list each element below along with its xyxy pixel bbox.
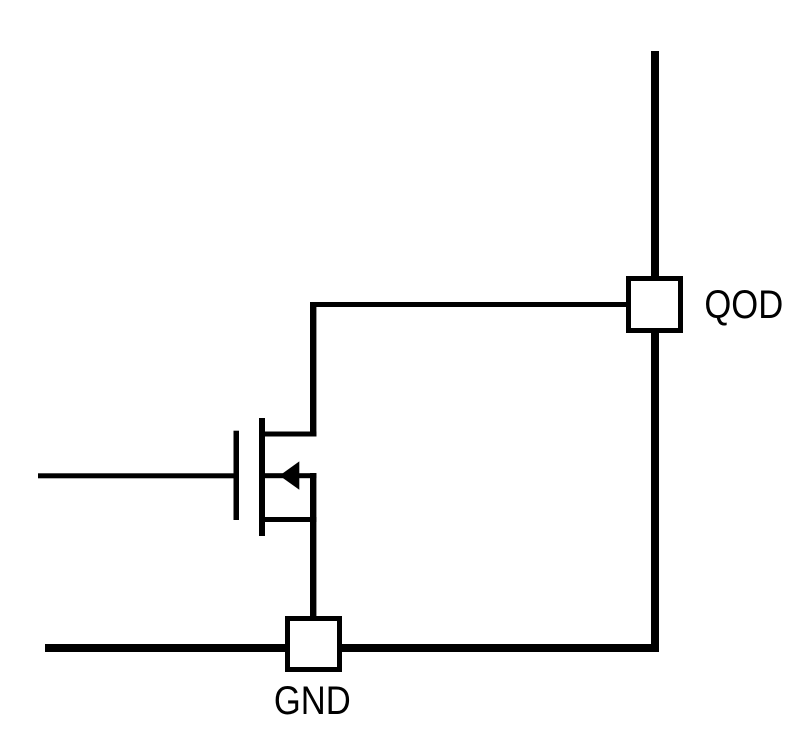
wire: drain net vertical from top edge down to QOD port: [651, 51, 659, 280]
wire: gate lead from left edge: [38, 473, 234, 478]
transistor M1 gate bar: [234, 431, 240, 520]
transistor M1 body arrow: [280, 461, 300, 489]
svg-text:GND: GND: [274, 677, 351, 722]
wire: transistor body lead: [261, 473, 316, 478]
wire: transistor drain lead: [261, 432, 316, 437]
wire: transistor source lead: [261, 517, 316, 522]
port QOD box: [629, 279, 681, 331]
wire: bottom ground rail: [45, 644, 659, 652]
wire: source/body riser vertical down to GND port: [310, 473, 316, 619]
wire: horizontal from drain riser to QOD port left pin: [310, 302, 628, 307]
port GND box: [288, 619, 340, 670]
svg-text:QOD: QOD: [704, 282, 783, 327]
wire: vertical from QOD port down to ground rail: [651, 329, 659, 652]
wire: drain riser vertical: [310, 302, 316, 437]
transistor M1 channel bar: [259, 418, 265, 536]
